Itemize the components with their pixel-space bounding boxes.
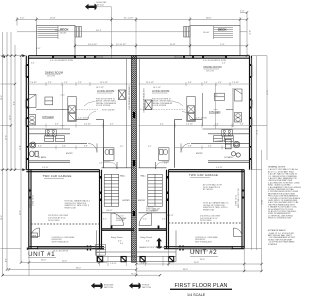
center porch dims (103, 219, 166, 265)
interior vertical dim U2 (214, 84, 218, 129)
svg-text:TWO CAR GARAGE: TWO CAR GARAGE (43, 174, 72, 178)
window marks right wall (250, 64, 252, 160)
svg-text:10'-11 1/2": 10'-11 1/2" (116, 44, 126, 46)
garage note 1 U1 (65, 200, 91, 210)
svg-text:24'-4 1/2": 24'-4 1/2" (166, 215, 174, 217)
svg-text:LIVING ROOM: LIVING ROOM (152, 89, 169, 93)
mid dim line y=125.5 U2 (139, 124, 252, 128)
hall walls U1 (29, 134, 88, 163)
short right top dim (240, 12, 247, 14)
svg-text:Entry Porch: Entry Porch (141, 236, 153, 239)
left rotated dim labels (1, 95, 21, 220)
svg-text:1/2 BATH: 1/2 BATH (224, 156, 233, 159)
flex note leader U2 (172, 101, 183, 106)
garage walls U1 (26, 170, 104, 249)
svg-text:Entry Porch: Entry Porch (111, 236, 123, 239)
room label underlines (42, 69, 220, 178)
svg-text:ENTRY: ENTRY (196, 153, 203, 155)
garage note 1 U2 (203, 184, 223, 192)
chimney U2 (145, 100, 152, 110)
deck stairs (unit 1) (75, 27, 82, 38)
scattered small labels (31, 57, 226, 221)
porch corner jambs (112, 226, 159, 230)
garage walls U2 (164, 170, 244, 249)
entry front walls (102, 229, 167, 231)
svg-text:57'-0": 57'-0" (255, 130, 257, 135)
svg-text:13R UP: 13R UP (106, 210, 113, 212)
svg-text:5'-4": 5'-4" (143, 219, 147, 221)
svg-text:76'-0": 76'-0" (131, 273, 136, 275)
kitchen island U2 (214, 93, 224, 100)
front door arc U2 (139, 213, 152, 226)
svg-text:13R UP: 13R UP (152, 210, 159, 212)
svg-text:2'-0": 2'-0" (164, 163, 168, 165)
svg-text:41'-1 1/2": 41'-1 1/2" (124, 18, 133, 20)
svg-text:DECK: DECK (60, 27, 69, 31)
door wall U2 (kitchen/hall) (175, 112, 203, 168)
svg-text:22'-6": 22'-6" (19, 210, 21, 215)
right garage side wall (242, 170, 244, 249)
svg-text:LOCKERS: LOCKERS (216, 140, 225, 142)
deck (unit 2) (190, 26, 240, 56)
svg-text:GENERAL NOTES:: GENERAL NOTES: (268, 166, 286, 169)
svg-text:10'-4 1/2": 10'-4 1/2" (88, 44, 97, 46)
svg-text:4'-0 x 4'-0 SLIDER W. SCRN: 4'-0 x 4'-0 SLIDER W. SCRN (50, 60, 74, 62)
window labels rear wall (50, 56, 227, 62)
svg-text:28'-0": 28'-0" (1, 95, 3, 100)
garage door note U1 (52, 236, 75, 244)
svg-text:11'-8": 11'-8" (170, 44, 176, 46)
dim slash ticks (left margin) (2, 55, 23, 277)
garage note 3 U2 (200, 216, 221, 223)
building section marker (top) (85, 4, 97, 10)
svg-text:29'-0": 29'-0" (1, 215, 3, 220)
general notes body (268, 168, 302, 219)
step box U1 (31, 233, 38, 238)
svg-text:2x6 AT 16 OC: 2x6 AT 16 OC (234, 194, 237, 206)
building section marker (bottom) (91, 283, 103, 289)
svg-text:5'-0 1/2": 5'-0 1/2" (84, 124, 91, 126)
wc U1 (near party wall) (104, 148, 115, 161)
garage note 2 U2 (203, 202, 229, 212)
interior wall x=128 U1 (126, 59, 128, 168)
1/2 bath U2 (225, 139, 240, 157)
svg-text:2'-0": 2'-0" (240, 11, 245, 13)
porch steps left (96, 245, 106, 256)
deck dim line y=45.8 (75, 45, 247, 47)
svg-text:38'-0": 38'-0" (76, 268, 81, 270)
svg-text:1'-0": 1'-0" (204, 82, 208, 84)
svg-text:DECK: DECK (218, 27, 227, 31)
svg-text:ENTRY: ENTRY (123, 200, 131, 202)
svg-text:3'-0": 3'-0" (222, 63, 226, 65)
svg-text:3'-0": 3'-0" (78, 82, 82, 84)
door arc U1 hall (88, 143, 97, 152)
mid dim line y=125.5 U1 (26, 124, 134, 128)
svg-text:HALL: HALL (141, 174, 147, 177)
svg-text:2x6 AT 16 OC: 2x6 AT 16 OC (32, 194, 35, 206)
svg-text:15'-8": 15'-8" (50, 18, 56, 20)
svg-text:2'-0": 2'-0" (48, 82, 52, 84)
top dim line y=19.5 (17, 19, 247, 21)
left exterior wall (26, 56, 28, 170)
porch section marker (bottom) (129, 283, 141, 289)
svg-text:DINING ROOM: DINING ROOM (45, 70, 63, 74)
bottom dim labels (62, 261, 199, 276)
svg-text:20'-4": 20'-4" (62, 261, 67, 263)
svg-text:7'-0 1/2": 7'-0 1/2" (30, 82, 37, 84)
svg-text:DECK DN: DECK DN (95, 56, 104, 58)
garage left wall window (29, 190, 31, 199)
garage door jambs U2 (180, 246, 232, 251)
wc walls/door U1 (104, 162, 118, 169)
hall walls center (102, 168, 167, 213)
svg-text:2'-6": 2'-6" (32, 124, 36, 126)
lower dim line U1 (26, 146, 103, 150)
stove U1 (46, 130, 57, 137)
svg-text:EXTERIOR WALLS:: EXTERIOR WALLS: (268, 229, 286, 232)
flex room note U1 (96, 99, 117, 112)
window marks left wall (26, 64, 28, 160)
title underline (170, 289, 232, 290)
svg-text:2'-6": 2'-6" (240, 124, 244, 126)
garage right wall window (242, 190, 244, 199)
svg-text:7'-0 1/2": 7'-0 1/2" (232, 82, 239, 84)
pantry closets U2 (214, 136, 234, 142)
top dimension labels (20, 11, 245, 50)
svg-text:UNIT #2: UNIT #2 (190, 249, 217, 256)
wc U2 (near party wall) (159, 148, 170, 161)
svg-text:20'-4": 20'-4" (194, 262, 199, 264)
svg-text:3'-0": 3'-0" (31, 63, 35, 65)
svg-text:FLOOR SYSTEM: FLOOR SYSTEM (152, 105, 167, 107)
svg-text:7'-4": 7'-4" (220, 44, 225, 46)
svg-text:STOP CEILING: STOP CEILING (102, 110, 115, 112)
flex note leader U1 (84, 101, 96, 106)
svg-text:4'-2": 4'-2" (160, 124, 164, 126)
deck (unit 1) (37, 26, 76, 56)
svg-text:1/2 BATH: 1/2 BATH (38, 156, 47, 159)
svg-text:1/4 SCALE: 1/4 SCALE (187, 293, 206, 297)
svg-text:11'6 x 9'6: 11'6 x 9'6 (47, 75, 55, 77)
dim slash ticks (top lines) (16, 11, 248, 57)
svg-text:5'-0 1/2": 5'-0 1/2" (42, 167, 49, 169)
window glass lines left wall (24, 65, 26, 126)
svg-text:AT CEILING: AT CEILING (203, 188, 213, 191)
svg-text:KITCHEN: KITCHEN (209, 110, 221, 114)
svg-text:4'-0": 4'-0" (120, 243, 124, 245)
party wall dark segments (133, 112, 135, 216)
garage dashed line U2 (169, 222, 243, 224)
svg-text:16'-1 1/2": 16'-1 1/2" (96, 87, 104, 89)
interior vertical dim U1 (61, 84, 65, 129)
svg-text:LIVING ROOM: LIVING ROOM (97, 89, 114, 93)
svg-text:GARAGE FLOOR 4" CONC SLAB: GARAGE FLOOR 4" CONC SLAB (139, 246, 166, 249)
svg-text:3'-0": 3'-0" (103, 219, 107, 221)
stairs U1 (104, 174, 119, 206)
svg-text:W/ R21 INSUL: W/ R21 INSUL (48, 220, 60, 222)
svg-text:3'-0": 3'-0" (162, 219, 166, 221)
svg-text:W/ R21 INSUL: W/ R21 INSUL (200, 220, 212, 222)
svg-text:3'-8": 3'-8" (84, 146, 88, 148)
hall walls U2 (191, 134, 250, 163)
svg-text:FLOOR SYSTEM: FLOOR SYSTEM (96, 105, 111, 107)
door wall U1 (kitchen/hall) (76, 112, 104, 168)
second dim line y=31.8 (17, 31, 136, 33)
svg-text:DECK DN: DECK DN (174, 57, 183, 59)
svg-text:6'-0": 6'-0" (146, 240, 150, 242)
section cut line (vertical) (97, 7, 112, 58)
front door arc U1 (111, 213, 124, 226)
flex room note U2 (152, 99, 173, 108)
svg-text:28'-0": 28'-0" (206, 18, 212, 20)
stairs U2 (148, 174, 163, 206)
svg-text:FINISH COAT: FINISH COAT (203, 208, 215, 211)
svg-text:ENTRY: ENTRY (66, 153, 73, 155)
svg-text:MAINT WALL 5/8 FC BD: MAINT WALL 5/8 FC BD (237, 188, 240, 208)
svg-text:KITCHEN: KITCHEN (42, 115, 54, 119)
svg-text:A2 S.04: A2 S.04 (97, 4, 105, 7)
interior dim line y=84 U2 (139, 82, 252, 86)
slider door lines in rear wall (53, 56, 226, 58)
svg-text:16'x10': 16'x10' (203, 32, 210, 34)
1/2 bath U1 (30, 142, 39, 157)
svg-text:6'-0": 6'-0" (118, 240, 122, 242)
garage door line U1 (38, 247, 92, 249)
door arc U2 hall (181, 143, 190, 152)
garage door jambs U1 (38, 246, 91, 251)
garage door note U2 (195, 236, 218, 244)
svg-text:2'-0": 2'-0" (20, 18, 25, 20)
svg-text:3'-1": 3'-1" (148, 146, 152, 148)
garage dashed line U1 (31, 223, 100, 225)
deck stairs (unit 2) (184, 27, 191, 38)
svg-text:11'-4": 11'-4" (19, 145, 21, 150)
stair wall insulation marks U2 (167, 176, 169, 201)
svg-text:PRIOR TO CONSTRUCTION: PRIOR TO CONSTRUCTION (268, 218, 292, 220)
rear wall (top) (29, 56, 250, 59)
svg-text:ENTRY: ENTRY (138, 200, 146, 202)
kitchen peninsula U1 (68, 97, 76, 122)
svg-text:13'-0 1/2": 13'-0 1/2" (146, 82, 154, 84)
entry door note U2 (146, 206, 160, 212)
svg-text:3'-1": 3'-1" (120, 146, 124, 148)
svg-text:12'-6": 12'-6" (9, 115, 11, 120)
party firewall (hatched) (131, 56, 136, 263)
svg-text:20'-1": 20'-1" (96, 30, 102, 32)
svg-text:11'6 x 9'6: 11'6 x 9'6 (206, 70, 214, 72)
pantry closets U1 (45, 136, 65, 142)
svg-text:TWO CAR GARAGE: TWO CAR GARAGE (189, 173, 218, 177)
left margin arrowheads (2, 54, 30, 250)
svg-text:1'-0": 1'-0" (64, 82, 68, 84)
porch slab (97, 230, 177, 261)
svg-text:28'-0": 28'-0" (200, 259, 205, 261)
svg-text:SELF FORMULA DR.: SELF FORMULA DR. (195, 240, 213, 243)
kitchen wall counter U1 (29, 95, 71, 130)
svg-text:6'-0": 6'-0" (55, 124, 59, 126)
building section label (top) (97, 2, 108, 6)
porch posts (98, 257, 174, 262)
svg-text:5'-4": 5'-4" (62, 146, 66, 148)
interior dim line y=84 U1 (26, 82, 136, 86)
svg-text:SELF FORMULA DR.: SELF FORMULA DR. (52, 240, 70, 243)
chimney U1 (119, 90, 126, 100)
deck boards (unit 1) (38, 26, 59, 39)
svg-text:1 HR FIREWALL ASSEMBLY: 1 HR FIREWALL ASSEMBLY (128, 85, 131, 110)
line of floor above (dashed) U1 (76, 109, 98, 111)
svg-text:HALL: HALL (120, 174, 126, 177)
svg-text:SECTION: SECTION (104, 287, 113, 289)
garage side door arc U1 (31, 228, 40, 237)
svg-text:57'-0": 57'-0" (5, 135, 7, 140)
window marks rear wall (52, 56, 227, 58)
kitchen island U1 (45, 97, 53, 105)
line of floor above (dashed) U2 (140, 109, 185, 111)
svg-text:8'-0": 8'-0" (38, 146, 42, 148)
svg-text:STEP: STEP (31, 236, 36, 238)
window glass lines right wall (252, 65, 254, 126)
svg-text:13'-0 1/2": 13'-0 1/2" (100, 82, 108, 84)
kitchen wall counter U2 (203, 88, 250, 129)
svg-text:3'-0": 3'-0" (188, 82, 192, 84)
svg-text:10'-0": 10'-0" (248, 30, 250, 35)
garage door line U2 (178, 247, 232, 249)
svg-text:16'x10': 16'x10' (60, 33, 67, 35)
dim slash ticks (bottom lines) (2, 261, 263, 276)
right rotated dim labels (250, 90, 267, 205)
entry door note U1 (116, 216, 127, 222)
wc walls/door U2 (156, 162, 170, 169)
svg-text:& PAINTED: & PAINTED (268, 243, 278, 246)
stair wall insulation marks U1 (100, 176, 102, 201)
svg-text:5'-4": 5'-4" (208, 146, 212, 148)
svg-text:28'-0": 28'-0" (41, 260, 46, 262)
svg-text:28'-0": 28'-0" (250, 100, 252, 105)
garage side door arc U2 (234, 228, 243, 237)
svg-text:2'-0": 2'-0" (218, 82, 222, 84)
svg-text:38'-0": 38'-0" (183, 269, 188, 271)
svg-text:3'-8": 3'-8" (188, 146, 192, 148)
svg-text:FIRST FLOOR PLAN: FIRST FLOOR PLAN (175, 283, 228, 289)
left garage side wall (29, 170, 31, 249)
interior wall x=144.8 U2 (139, 59, 141, 168)
svg-text:DINING ROOM: DINING ROOM (204, 65, 222, 69)
lower dim line U2 (175, 146, 252, 150)
svg-text:2'-0": 2'-0" (99, 163, 103, 165)
porch section marker (156, 238, 162, 249)
svg-text:2'-8 1/2": 2'-8 1/2" (110, 263, 117, 265)
svg-text:4'-0": 4'-0" (5, 258, 7, 262)
svg-text:29'-0": 29'-0" (260, 200, 262, 205)
svg-text:9'-0": 9'-0" (13, 101, 15, 105)
stove U2 (222, 130, 233, 137)
svg-text:5'-4": 5'-4" (122, 219, 126, 221)
kitchen peninsula U2 (187, 97, 195, 122)
svg-text:5'-0 1/2": 5'-0 1/2" (216, 167, 223, 169)
svg-text:SECTION: SECTION (142, 287, 151, 289)
svg-text:5'-0 1/2": 5'-0 1/2" (186, 124, 193, 126)
svg-text:16'-1 1/2": 16'-1 1/2" (153, 87, 161, 89)
right exterior wall (250, 56, 252, 170)
exterior walls body (268, 232, 295, 246)
svg-text:8'-0": 8'-0" (234, 146, 238, 148)
svg-text:4'-2": 4'-2" (110, 124, 114, 126)
svg-text:16'-0 x 8'-0 OH DR: 16'-0 x 8'-0 OH DR (53, 251, 69, 253)
svg-text:UNIT #1: UNIT #1 (28, 251, 55, 258)
garage note 2 U1 (48, 215, 69, 222)
deck boards (unit 2) (214, 26, 234, 39)
svg-text:12'-6": 12'-6" (265, 90, 267, 95)
svg-text:FINISH COAT: FINISH COAT (65, 206, 77, 209)
